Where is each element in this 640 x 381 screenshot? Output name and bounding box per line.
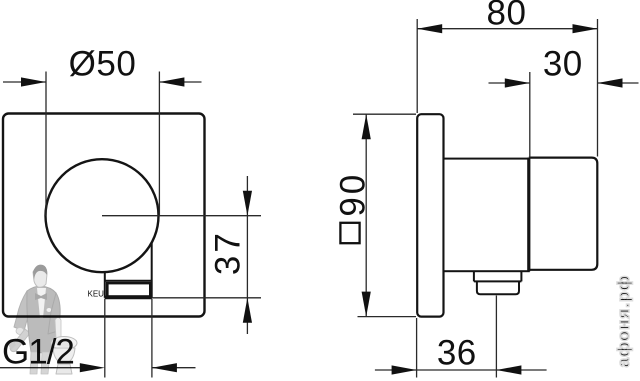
front outlet	[105, 243, 152, 298]
dim 80 dimension line	[417, 28, 597, 30]
dim 30 extension line	[529, 72, 531, 158]
watermark figure (plumber with wrench and toilet)	[8, 265, 77, 374]
dim 90 reference lines	[353, 113, 416, 115]
dim G1/2 arrows	[80, 363, 105, 372]
dim 36 dimension line	[375, 369, 547, 371]
side body	[444, 159, 529, 272]
dim 30 dimension line	[489, 82, 530, 84]
side divider	[527, 158, 530, 272]
svg-text:36: 36	[437, 334, 477, 373]
dim Ø50 extension lines	[45, 72, 47, 217]
svg-text:афоня.рф: афоня.рф	[614, 275, 633, 368]
dim 36 extension lines	[416, 318, 418, 378]
svg-text:37: 37	[209, 230, 248, 275]
svg-text:Ø50: Ø50	[69, 45, 137, 84]
dim 90 arrows	[362, 114, 371, 139]
dim G1/2 extension lines	[104, 299, 106, 378]
dim 90 square symbol	[340, 223, 359, 243]
dim 37 dimension line	[246, 176, 248, 334]
centre line	[102, 215, 261, 217]
dim Ø50 arrows	[21, 77, 46, 86]
dim 90 dimension line	[365, 114, 367, 316]
svg-text:90: 90	[333, 172, 372, 217]
dim Ø50 dimension line	[3, 81, 46, 83]
side outlet	[474, 272, 522, 295]
front plate	[3, 114, 205, 317]
front rosette circle	[46, 159, 159, 272]
side handle block	[529, 158, 598, 270]
dim 80 extension lines	[416, 19, 418, 113]
dim G1/2 dimension line	[0, 367, 80, 369]
side plate	[417, 114, 443, 316]
dim 36 arrows	[392, 365, 417, 374]
svg-text:80: 80	[487, 0, 527, 33]
dim 37 arrows	[243, 191, 252, 216]
dim 80 arrows	[417, 24, 442, 33]
dim 30 arrows	[505, 78, 530, 87]
dim 37 reference line	[152, 297, 261, 299]
svg-text:30: 30	[543, 45, 583, 84]
svg-text:KEU: KEU	[88, 290, 105, 299]
